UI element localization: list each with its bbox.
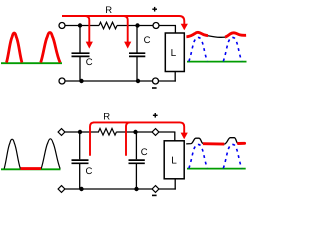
wire: top rail after resistor circuit 1 xyxy=(117,25,176,27)
output waveform circuit 2: blue dashed arch 2 xyxy=(223,144,241,168)
output terminal bottom circuit 1 xyxy=(153,78,159,84)
wire: top rail after resistor circuit 2 xyxy=(117,131,176,133)
output waveform circuit 2: blue dashed arch 1 xyxy=(189,144,207,168)
red arrowhead into load circuit 2 xyxy=(181,133,188,140)
output waveform circuit 2: black charge bump 1 xyxy=(186,138,203,144)
output terminal bottom circuit 2 (diamond) xyxy=(152,186,159,193)
input waveform top-left: red rectified arch 2 xyxy=(41,33,60,63)
output waveform circuit 1: black discharge sag xyxy=(208,36,225,38)
label - (circuit 2 output polarity) xyxy=(152,194,157,196)
red branch arrow into C1 xyxy=(85,16,89,42)
resistor R (circuit 1) xyxy=(99,22,117,29)
svg-text:C: C xyxy=(144,35,151,46)
input waveform bottom-left: red discharge segment on baseline xyxy=(21,167,42,170)
red discharge path circuit 2: from C4 up xyxy=(126,122,130,155)
svg-text:C: C xyxy=(141,147,148,158)
output waveform circuit 1: blue dashed arch 1 xyxy=(189,37,207,61)
wire: bottom rail circuit 1 xyxy=(62,80,176,82)
red arrowhead into load circuit 1 xyxy=(181,24,188,31)
output waveform circuit 2: red discharge segment 2 xyxy=(238,142,244,145)
output waveform circuit 2: green baseline xyxy=(187,168,246,170)
junction dot bottom-right circuit 2 xyxy=(134,187,138,191)
input terminal bottom circuit 2 (diamond) xyxy=(58,186,65,193)
capacitor C2 plates xyxy=(129,52,145,54)
input terminal top circuit 1 xyxy=(59,23,65,29)
red discharge path circuit 2: main line into load xyxy=(93,122,184,133)
capacitor C4 plates xyxy=(129,159,145,161)
resistor R (circuit 2) xyxy=(99,129,117,136)
svg-text:C: C xyxy=(86,57,93,68)
output terminal top circuit 2 (diamond) xyxy=(152,129,159,136)
output waveform circuit 1: red ripple over arch 2 xyxy=(225,33,246,37)
load L box circuit 1 xyxy=(165,33,184,72)
input waveform bottom-left: green baseline xyxy=(1,168,61,170)
input waveform top-left: red rectified arch 1 xyxy=(7,33,22,63)
junction dot bottom-left circuit 1 xyxy=(79,79,83,83)
wire: top rail drop into load circuit 1 xyxy=(174,26,176,34)
input waveform top-left: green baseline xyxy=(1,62,62,64)
capacitor C4 lead (circuit 2 output cap) xyxy=(135,132,137,159)
input waveform bottom-left: black arch 2 xyxy=(41,139,60,169)
svg-text:R: R xyxy=(105,5,112,16)
label + (circuit 1 output polarity) xyxy=(152,7,157,12)
svg-text:R: R xyxy=(103,112,110,123)
capacitor C1 lead (circuit 1 input cap) xyxy=(79,26,81,53)
wire: bottom rail circuit 2 xyxy=(62,188,176,190)
red current path circuit 1: main line input to load xyxy=(62,16,184,24)
wire: top rail drop into load circuit 2 xyxy=(174,132,176,141)
capacitor C3 lead (circuit 2 input cap) xyxy=(79,132,81,159)
input waveform bottom-left: black arch 1 xyxy=(4,139,20,168)
red discharge path circuit 2: from C3 up xyxy=(90,122,94,155)
red branch arrow into C2 xyxy=(124,16,128,42)
junction dot top-right circuit 2 xyxy=(133,130,137,134)
svg-text:L: L xyxy=(171,155,177,166)
output waveform circuit 2: black charge bump 2 xyxy=(224,138,237,144)
input terminal top circuit 2 (diamond) xyxy=(58,129,65,136)
output terminal top circuit 1 xyxy=(153,23,159,29)
wire: load bottom drop circuit 1 xyxy=(174,72,176,82)
junction dot top-right circuit 1 xyxy=(135,23,139,27)
junction dot top-left circuit 1 xyxy=(78,23,82,27)
junction dot bottom-right circuit 1 xyxy=(136,79,140,83)
input terminal bottom circuit 1 xyxy=(59,78,65,84)
capacitor C3 plates xyxy=(72,159,89,161)
label - (circuit 1 output polarity) xyxy=(152,87,157,89)
wire: top rail circuit 2 xyxy=(62,131,100,133)
output waveform circuit 1: blue dashed arch 2 xyxy=(223,37,241,61)
junction dot bottom-left circuit 2 xyxy=(79,187,83,191)
load L box circuit 2 xyxy=(164,141,184,179)
wire: top rail circuit 1 xyxy=(62,25,100,27)
svg-text:C: C xyxy=(86,166,93,177)
capacitor C1 plates xyxy=(72,52,90,54)
wire: load bottom drop circuit 2 xyxy=(174,179,176,190)
svg-text:L: L xyxy=(171,48,177,59)
junction dot top-left circuit 2 xyxy=(78,130,82,134)
label + (circuit 2 output polarity) xyxy=(153,113,158,118)
output waveform circuit 1: red ripple over arch 1 xyxy=(186,32,208,36)
output waveform circuit 1: green baseline xyxy=(187,61,247,63)
output waveform circuit 2: red discharge segment 1 xyxy=(203,142,224,145)
capacitor C2 lead (circuit 1 output cap) xyxy=(136,26,138,53)
